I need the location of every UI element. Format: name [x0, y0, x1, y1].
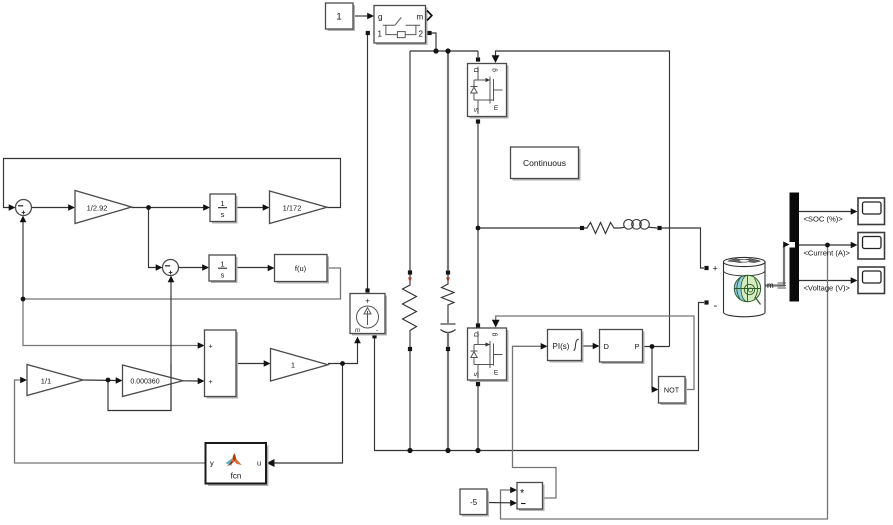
svg-text:<Current (A)>: <Current (A)>: [804, 249, 851, 258]
svg-text:+: +: [713, 264, 718, 274]
svg-text:2: 2: [419, 30, 424, 39]
svg-text:g: g: [491, 68, 498, 72]
svg-text:s: s: [221, 210, 225, 219]
svg-text:1: 1: [220, 260, 224, 269]
svg-text:+: +: [365, 297, 370, 306]
svg-text:1/172: 1/172: [283, 204, 302, 213]
svg-text:1: 1: [336, 12, 341, 23]
svg-text:1/1: 1/1: [41, 377, 51, 386]
svg-text:g: g: [378, 13, 382, 22]
svg-text:-5: -5: [470, 498, 478, 507]
svg-text:+: +: [209, 379, 213, 386]
svg-text:-: -: [376, 328, 378, 334]
svg-text:E: E: [494, 370, 499, 377]
svg-text:E: E: [494, 105, 499, 112]
svg-text:f(u): f(u): [295, 264, 307, 273]
svg-text:m: m: [417, 13, 424, 22]
svg-text:m: m: [355, 328, 360, 334]
svg-text:-: -: [714, 300, 718, 312]
svg-text:D: D: [474, 67, 481, 72]
svg-text:1/2.92: 1/2.92: [87, 204, 108, 213]
svg-text:NOT: NOT: [664, 386, 680, 395]
svg-text:D: D: [604, 342, 610, 351]
svg-text:<Voltage (V)>: <Voltage (V)>: [804, 284, 851, 293]
svg-text:fcn: fcn: [231, 472, 242, 481]
svg-text:s: s: [221, 271, 225, 280]
svg-text:P: P: [635, 342, 640, 351]
svg-text:*: *: [520, 488, 525, 500]
svg-text:PI(s): PI(s): [553, 342, 570, 351]
svg-text:D: D: [474, 332, 481, 337]
svg-text:+: +: [209, 344, 213, 351]
svg-text:g: g: [491, 332, 498, 336]
svg-text:1: 1: [291, 361, 295, 370]
svg-text:u: u: [257, 459, 261, 468]
svg-text:<SOC (%)>: <SOC (%)>: [804, 215, 844, 224]
svg-text:S: S: [474, 107, 481, 112]
svg-text:Continuous: Continuous: [523, 158, 566, 168]
svg-text:S: S: [474, 372, 481, 377]
svg-text:y: y: [210, 459, 214, 468]
svg-text:0.000360: 0.000360: [130, 379, 159, 386]
svg-text:m: m: [767, 281, 774, 290]
svg-text:1: 1: [378, 30, 383, 39]
svg-text:1: 1: [220, 199, 224, 208]
